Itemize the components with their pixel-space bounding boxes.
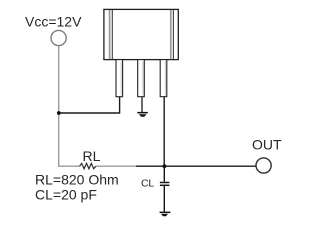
svg-text:Vcc=12V: Vcc=12V bbox=[25, 13, 82, 29]
wire Vcc vertical down and left feed to resistor bbox=[59, 46, 80, 167]
OUT terminal circle bbox=[256, 158, 271, 173]
wire resistor to junction (gray part) bbox=[96, 165, 136, 167]
transistor package U1 body bbox=[104, 9, 178, 59]
pin 3 inner shading bbox=[164, 61, 166, 96]
pin 1 bbox=[116, 60, 123, 97]
package inner line left dark bbox=[111, 10, 113, 59]
wire junction to OUT (black) bbox=[136, 165, 256, 167]
junction dot output node bbox=[163, 164, 167, 168]
package inner line right dark bbox=[172, 10, 174, 59]
junction dot on Vcc line bbox=[57, 111, 61, 115]
svg-text:RL: RL bbox=[83, 148, 101, 164]
ground under pin2 bbox=[137, 112, 148, 117]
ground under capacitor bbox=[160, 212, 171, 217]
svg-text:OUT: OUT bbox=[252, 137, 282, 153]
svg-text:CL=20 pF: CL=20 pF bbox=[35, 186, 97, 202]
wire pin3 down to output node bbox=[163, 97, 165, 167]
pin 3 bbox=[160, 60, 167, 97]
Vcc terminal circle bbox=[51, 30, 66, 45]
wire from pin1 to Vcc line bbox=[58, 97, 120, 114]
resistor RL zigzag bbox=[80, 163, 96, 168]
wire pin2 to ground bbox=[141, 97, 143, 113]
pin 2 inner shading bbox=[142, 61, 144, 96]
package inner line right gray bbox=[170, 10, 172, 59]
package inner line left gray bbox=[109, 10, 111, 59]
pin 2 bbox=[138, 60, 145, 97]
capacitor CL bbox=[160, 166, 170, 211]
pin 1 inner shading bbox=[120, 61, 122, 96]
svg-text:CL: CL bbox=[141, 177, 154, 189]
svg-text:RL=820 Ohm: RL=820 Ohm bbox=[35, 172, 119, 188]
